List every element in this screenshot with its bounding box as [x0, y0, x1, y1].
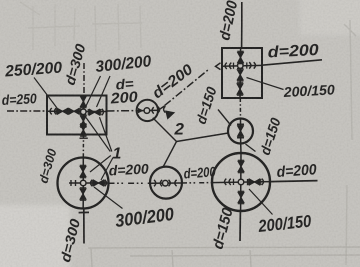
wire vertical d=150 below right well	[239, 211, 241, 241]
valve in right well (right)	[248, 179, 260, 185]
flange tick right well left	[233, 179, 235, 185]
wire pipe inside left well	[69, 182, 109, 184]
valve in small well d150	[237, 125, 243, 137]
leader 1 to chamber valve a	[86, 118, 110, 152]
wire vertical through left chamber	[82, 96, 84, 135]
valve below node in left well	[80, 188, 86, 200]
node in right well	[238, 179, 244, 185]
leader 1 to well valve a	[90, 156, 111, 173]
valve above node in right well	[238, 160, 244, 172]
short pipe d=150 to small well	[218, 110, 231, 126]
wire left chamber to left well	[82, 135, 84, 159]
medium well left chevrons	[154, 180, 156, 186]
flange tick top chamber left	[233, 63, 235, 69]
left well right chevron	[91, 180, 93, 186]
valve above node in left well	[80, 165, 86, 177]
node in middle well	[144, 108, 150, 114]
wire pipe through top chamber	[221, 64, 262, 67]
chamber rectangle top-right	[222, 48, 262, 98]
node tee top chamber	[238, 63, 244, 69]
wire vertical d=200 above top chamber	[241, 2, 243, 48]
wire pipe through left chamber	[48, 110, 107, 112]
ghost artifacts bottom	[88, 247, 360, 267]
well circle medium	[150, 167, 182, 199]
flange tick above valve small well	[237, 123, 244, 125]
flange tick below left well	[79, 211, 89, 213]
flange tick top chamber right	[246, 62, 248, 68]
wire pipe d=200 right extension	[270, 181, 318, 182]
wire vertical d=300 below left well	[83, 209, 85, 244]
flange tick below left chamber	[80, 137, 88, 139]
leader to 300/200 bottom	[94, 187, 123, 209]
left chamber entry chevrons	[50, 108, 52, 114]
flange tick right well right	[247, 179, 249, 185]
wire vertical inside small well	[240, 119, 242, 144]
hydrant triangle at node 2	[165, 110, 175, 119]
chamber rectangle left	[47, 96, 107, 135]
well circle left	[58, 158, 109, 209]
valve in left well (right)	[92, 180, 104, 186]
node tee left chamber	[81, 109, 87, 115]
wire vertical through left well	[82, 158, 84, 209]
valve below node in left chamber	[80, 115, 86, 127]
top chamber entry chevrons	[225, 63, 227, 69]
well circle middle small	[137, 100, 158, 121]
wire pipe medium well to right well d=200	[182, 182, 212, 184]
right well exit chevron	[262, 179, 264, 185]
valve in left chamber (right)	[88, 109, 100, 115]
wire node2 branch to small well d=150	[177, 133, 229, 142]
flow arrow in middle well	[138, 108, 144, 114]
wire pipe inside middle well	[137, 109, 159, 112]
top chamber outside entry chevron	[216, 63, 221, 70]
wire vertical top chamber to small well	[239, 98, 241, 119]
leader to 300/200 top (b)	[97, 76, 111, 107]
valve above node in top chamber	[237, 51, 243, 63]
left well flange ticks left	[71, 180, 76, 186]
leader to 200/150 top	[247, 78, 284, 90]
top chamber exit chevrons	[249, 62, 251, 68]
ghost bleed-through artifacts top-left	[20, 2, 142, 52]
left well exit chevron	[105, 180, 107, 186]
valve below node in top chamber	[237, 69, 243, 81]
well circle right	[212, 153, 270, 211]
wire vertical through top chamber	[239, 48, 242, 98]
wire pipe d=250 left	[7, 110, 46, 112]
flange tick below valve small well	[237, 137, 244, 139]
leader d150 right	[246, 144, 256, 152]
right well left chevrons	[225, 179, 227, 185]
leader to 300/200 top (a)	[86, 76, 101, 106]
wire node2 branch to medium well	[163, 142, 177, 168]
valve in left chamber (second)	[68, 108, 80, 114]
node in medium well	[163, 180, 169, 186]
left chamber exit chevron	[102, 109, 104, 115]
leader to 250/200	[34, 78, 57, 109]
wire pipe d=200 top right	[262, 60, 322, 65]
valve below node in right well	[238, 191, 244, 203]
leader 1 to well valve b	[101, 158, 113, 181]
wire pipe through right well	[212, 182, 270, 183]
medium well right chevrons	[169, 180, 171, 186]
chevrons right of middle well	[158, 107, 160, 113]
valve above node in left chamber	[80, 95, 86, 107]
valve in left chamber (left)	[56, 108, 68, 114]
middle well right chevron	[152, 107, 154, 113]
well circle d150	[228, 119, 253, 144]
wire node2 branch to middle well	[153, 118, 177, 142]
leader to 200/150 bottom	[249, 189, 273, 215]
wire pipe left well to medium well d=200	[109, 182, 151, 184]
wire small well to right well	[240, 144, 242, 154]
wire diagonal pipe d=200 to top chamber	[159, 69, 210, 110]
wire pipe through medium well	[150, 182, 182, 184]
wire pipe left chamber to middle well	[107, 110, 138, 112]
leader 1 to chamber valve b	[100, 117, 112, 151]
wire vertical d=300 above left chamber	[83, 63, 85, 96]
wire vertical through right well	[240, 154, 242, 212]
node in left well	[80, 180, 86, 186]
valve at bottom of left chamber	[80, 124, 86, 136]
valve at bottom of top chamber	[237, 83, 243, 95]
ghost artifacts right edge	[344, 20, 356, 265]
